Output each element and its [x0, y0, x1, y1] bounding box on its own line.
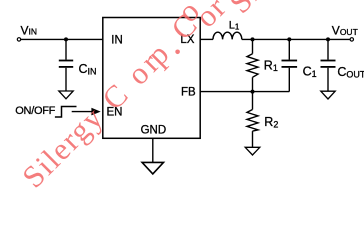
- resistor R2: [247, 92, 278, 148]
- watermark: [15, 0, 267, 194]
- svg-text:R2: R2: [264, 115, 278, 130]
- ground (below COUT): [321, 91, 335, 99]
- wire FB: [200, 91, 289, 93]
- svg-text:FB: FB: [181, 87, 196, 99]
- resistor R1: [247, 39, 278, 91]
- op-amp U1 (regulator IC box): [103, 18, 200, 139]
- wire GND pin: [152, 138, 154, 162]
- node FB junction: [251, 90, 255, 94]
- wire EN arrow: [72, 111, 92, 113]
- svg-text:R1: R1: [264, 58, 278, 73]
- node COUT top junction: [326, 37, 330, 41]
- terminal VOUT: [332, 24, 358, 42]
- wire inductor to VOUT: [242, 38, 350, 40]
- capacitor COUT: [321, 39, 364, 91]
- inductor L1: [213, 20, 242, 40]
- capacitor C1: [282, 39, 317, 91]
- svg-text:C1: C1: [303, 65, 317, 80]
- wire VIN to IN pin: [21, 38, 103, 40]
- capacitor CIN: [59, 39, 97, 91]
- svg-text:VOUT: VOUT: [332, 24, 358, 38]
- svg-text:ON/OFF: ON/OFF: [15, 105, 55, 117]
- node R1 top junction: [251, 37, 255, 41]
- wire LX to inductor: [200, 38, 213, 40]
- svg-text:L1: L1: [229, 20, 240, 32]
- ground (below CIN): [59, 91, 73, 99]
- svg-text:CIN: CIN: [79, 62, 97, 77]
- step waveform symbol: [55, 107, 77, 118]
- svg-text:IN: IN: [111, 34, 123, 46]
- terminal VIN: [17, 23, 37, 41]
- arrowhead into EN: [91, 108, 100, 116]
- svg-text:GND: GND: [141, 124, 167, 136]
- ground (below GND pin): [142, 162, 163, 174]
- ground (below R2): [245, 147, 260, 155]
- node CIN junction: [64, 37, 68, 41]
- svg-text:VIN: VIN: [21, 23, 38, 37]
- node C1 top junction: [287, 37, 291, 41]
- svg-text:COUT: COUT: [337, 65, 364, 80]
